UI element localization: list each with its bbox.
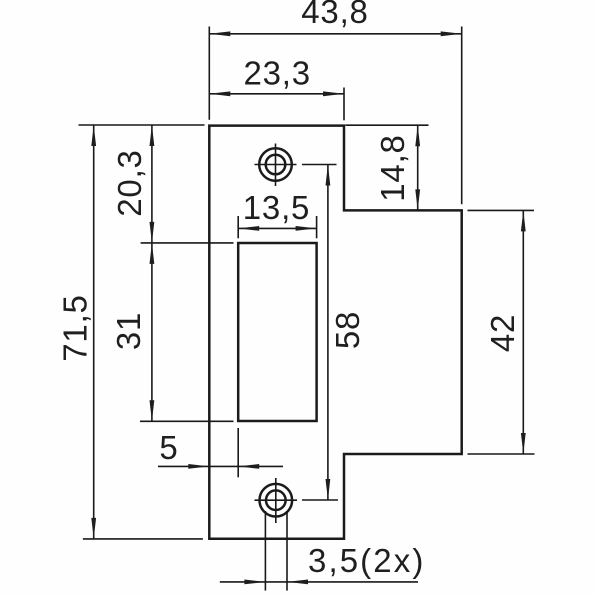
dimension line 3.5(2x)	[220, 581, 418, 583]
extension line top edge left	[79, 124, 205, 126]
centerline bottom hole horizontal	[255, 499, 298, 501]
screw hole top inner circle	[266, 155, 286, 175]
extension line cutout top left	[141, 242, 234, 244]
svg-text:43,8: 43,8	[301, 0, 368, 30]
dimension line 43.8	[209, 33, 461, 35]
screw hole top outer circle	[259, 148, 292, 181]
centerline bottom hole vertical	[275, 478, 277, 523]
extension line cutout top-right corner 13.5	[316, 216, 318, 238]
extension line hole bottom right 3.5	[286, 511, 288, 591]
screw hole bottom inner circle	[266, 490, 286, 510]
dimension line 5	[158, 465, 283, 467]
dimension line 42	[522, 210, 524, 454]
centerline top hole horizontal	[255, 164, 297, 166]
arrowhead 23.3 left	[209, 91, 230, 96]
arrowhead 5 left outside	[188, 464, 209, 469]
arrowhead 20.3 top	[150, 125, 155, 146]
extension line hole top center 58	[302, 164, 337, 166]
arrowhead 14.8 bottom	[415, 189, 420, 210]
dimension line 31	[151, 243, 153, 421]
extension line cutout left below 5	[237, 428, 239, 477]
extension line 14.8 top	[346, 124, 429, 126]
arrowhead 23.3 right	[323, 91, 344, 96]
extension line cutout top-left corner 13.5	[237, 216, 239, 238]
dimension line 14.8	[417, 125, 419, 210]
svg-text:42: 42	[484, 314, 521, 352]
dimension line 23.3	[209, 93, 344, 95]
svg-text:14,8: 14,8	[374, 134, 411, 201]
arrowhead 71.5 top	[91, 125, 96, 146]
svg-text:5: 5	[159, 429, 178, 466]
arrowhead 14.8 top	[415, 125, 420, 146]
dimension line 20.3	[151, 125, 153, 243]
arrowhead 58 top	[326, 165, 331, 186]
arrowhead 5 right outside	[238, 464, 259, 469]
arrowhead 13.5 right	[296, 226, 317, 231]
svg-text:23,3: 23,3	[243, 55, 310, 92]
arrowhead 58 bottom	[326, 479, 331, 500]
arrowhead 42 bottom	[521, 433, 526, 454]
extension line bottom edge left	[83, 538, 203, 540]
extension line right edge top	[461, 27, 463, 205]
dimension line 58	[327, 165, 329, 501]
dimension line 13.5	[238, 227, 316, 229]
dimension line 71.5	[93, 125, 95, 539]
screw hole bottom outer circle	[260, 484, 293, 517]
extension line hole bottom left 3.5	[264, 511, 266, 591]
svg-text:71,5: 71,5	[57, 294, 94, 361]
extension line cutout bottom left	[140, 420, 234, 422]
svg-text:13,5: 13,5	[243, 189, 310, 226]
arrowhead 31 top	[150, 243, 155, 264]
extension line plate top-right corner	[343, 88, 345, 121]
arrowhead 42 top	[521, 210, 526, 231]
arrowhead 20.3 bottom	[150, 222, 155, 243]
arrowhead 43.8 right	[441, 31, 462, 36]
centerline top hole vertical	[275, 144, 277, 187]
arrowhead 13.5 left	[238, 226, 259, 231]
extension line hole bottom center 58	[302, 499, 338, 501]
strike plate outline	[209, 126, 461, 539]
svg-text:3,5(2x): 3,5(2x)	[308, 542, 425, 579]
arrowhead 3.5 right outside	[287, 580, 308, 585]
svg-text:20,3: 20,3	[111, 149, 148, 216]
arrowhead 31 bottom	[150, 400, 155, 421]
extension line step top right 42	[468, 209, 535, 211]
latch cutout rectangle	[238, 243, 316, 421]
extension line step bottom right 42	[468, 453, 535, 455]
arrowhead 71.5 bottom	[91, 518, 96, 539]
arrowhead 43.8 left	[209, 31, 230, 36]
extension line left edge top	[208, 27, 210, 120]
svg-text:58: 58	[329, 311, 366, 349]
svg-text:31: 31	[110, 312, 147, 350]
arrowhead 3.5 left outside	[244, 580, 265, 585]
